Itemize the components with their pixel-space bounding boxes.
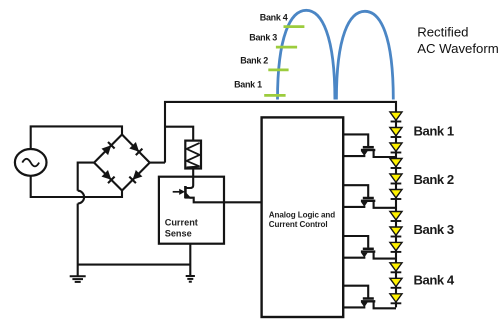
svg-text:Analog Logic and: Analog Logic and xyxy=(269,210,335,219)
svg-text:Bank 3: Bank 3 xyxy=(249,32,277,42)
svg-text:Bank 2: Bank 2 xyxy=(414,172,454,187)
svg-text:Rectified: Rectified xyxy=(417,25,468,40)
svg-text:Bank 3: Bank 3 xyxy=(414,222,454,237)
svg-text:Bank 2: Bank 2 xyxy=(240,55,268,65)
svg-text:Bank 1: Bank 1 xyxy=(234,79,262,89)
svg-text:Current Control: Current Control xyxy=(269,220,328,229)
svg-text:AC Waveform: AC Waveform xyxy=(417,41,499,56)
svg-text:Bank 4: Bank 4 xyxy=(260,12,288,22)
svg-text:Bank 1: Bank 1 xyxy=(414,123,454,138)
svg-text:Current: Current xyxy=(165,218,198,228)
svg-text:Bank 4: Bank 4 xyxy=(414,272,455,287)
svg-text:Sense: Sense xyxy=(165,228,192,238)
